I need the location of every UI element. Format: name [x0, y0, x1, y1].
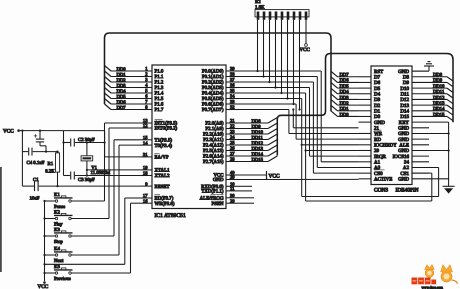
svg-text:DD3: DD3	[117, 83, 127, 89]
svg-text:D2: D2	[374, 103, 381, 109]
svg-text:16: 16	[143, 198, 148, 203]
svg-text:DD5: DD5	[340, 83, 350, 89]
svg-text:K1: K1	[54, 192, 60, 198]
svg-text:DD3: DD3	[340, 95, 350, 101]
svg-text:P2.2(A10): P2.2(A10)	[203, 132, 224, 138]
svg-text:D3: D3	[374, 97, 381, 103]
svg-text:GND: GND	[398, 126, 409, 132]
svg-text:D15: D15	[400, 114, 409, 120]
svg-text:P0.2(AD2): P0.2(AD2)	[202, 80, 224, 86]
svg-text:IDE40PIN: IDE40PIN	[396, 188, 419, 194]
svg-text:DD2: DD2	[117, 77, 127, 83]
svg-text:INT0(P3.2): INT0(P3.2)	[155, 126, 178, 132]
svg-text:26: 26	[230, 146, 235, 151]
svg-text:WR(P3.6): WR(P3.6)	[155, 201, 175, 207]
svg-text:T1(P3.5): T1(P3.5)	[155, 138, 173, 144]
svg-text:20: 20	[230, 175, 235, 180]
svg-text:VCC: VCC	[300, 47, 311, 53]
svg-text:22: 22	[230, 124, 235, 129]
svg-text:P0.4(AD4): P0.4(AD4)	[202, 91, 224, 97]
svg-text:T0(P3.4): T0(P3.4)	[155, 143, 173, 149]
svg-text:K4: K4	[54, 246, 60, 252]
svg-text:PSEN: PSEN	[212, 201, 224, 207]
svg-text:1.8K: 1.8K	[255, 5, 265, 11]
svg-text:15: 15	[143, 135, 148, 140]
svg-text:TXD(P1.1): TXD(P1.1)	[201, 189, 224, 195]
svg-text:24: 24	[230, 135, 235, 140]
svg-text:DD5: DD5	[117, 94, 127, 100]
svg-text:DD11: DD11	[252, 135, 264, 141]
svg-text:11: 11	[230, 186, 235, 191]
svg-text:33: 33	[230, 99, 235, 104]
svg-text:CS0: CS0	[374, 171, 383, 177]
svg-text:P0.1(AD1): P0.1(AD1)	[202, 74, 224, 80]
svg-text:DD14: DD14	[433, 106, 445, 112]
svg-text:21: 21	[230, 118, 235, 123]
svg-text:P2.5(A13): P2.5(A13)	[203, 148, 224, 154]
svg-text:R1: R1	[48, 161, 54, 167]
svg-text:19: 19	[143, 165, 148, 170]
svg-text:K5: K5	[54, 264, 60, 270]
svg-text:CS1: CS1	[400, 171, 409, 177]
svg-text:RST: RST	[374, 69, 383, 75]
svg-text:GND: GND	[213, 177, 224, 183]
svg-text:P0.6(AD6): P0.6(AD6)	[202, 102, 224, 108]
svg-text:DD2: DD2	[340, 100, 350, 106]
svg-text:P2.6(A14): P2.6(A14)	[203, 154, 224, 160]
svg-text:32: 32	[230, 105, 235, 110]
svg-text:GND: GND	[398, 137, 409, 143]
svg-text:P0.3(AD3): P0.3(AD3)	[202, 85, 224, 91]
svg-text:C3 30pF: C3 30pF	[78, 177, 95, 183]
svg-text:P0.5(AD5): P0.5(AD5)	[202, 96, 224, 102]
svg-text:30: 30	[230, 193, 235, 198]
svg-text:R2: R2	[255, 0, 261, 5]
svg-text:DD10: DD10	[252, 129, 264, 135]
svg-text:C4 0.1uF: C4 0.1uF	[27, 160, 45, 166]
svg-text:K2: K2	[54, 210, 60, 216]
svg-text:DD15: DD15	[433, 112, 445, 118]
svg-text:C1: C1	[33, 177, 39, 183]
svg-text:Stop: Stop	[54, 239, 63, 245]
svg-text:DD4: DD4	[117, 88, 127, 94]
svg-text:14: 14	[143, 140, 148, 145]
svg-text:GND: GND	[398, 177, 409, 183]
svg-text:10uF: 10uF	[30, 196, 40, 202]
svg-text:18: 18	[143, 171, 148, 176]
svg-text:DD12: DD12	[252, 140, 264, 146]
svg-text:DD14: DD14	[252, 151, 264, 157]
svg-text:VCC: VCC	[269, 173, 280, 179]
svg-text:DD13: DD13	[433, 100, 445, 106]
svg-text:P0.7(AD7): P0.7(AD7)	[202, 107, 224, 113]
svg-text:IOCHRDY: IOCHRDY	[374, 143, 397, 149]
svg-text:12: 12	[143, 123, 148, 128]
svg-text:P2.3(A11): P2.3(A11)	[203, 137, 224, 143]
svg-text:K3: K3	[54, 227, 60, 233]
svg-text:34: 34	[230, 94, 235, 99]
svg-text:P2.4(A12): P2.4(A12)	[203, 143, 224, 149]
svg-text:EA/VP: EA/VP	[155, 155, 169, 161]
svg-text:DD9: DD9	[433, 78, 443, 84]
svg-text:P1.0: P1.0	[155, 69, 164, 75]
svg-text:P1.1: P1.1	[155, 74, 164, 80]
svg-text:21: 21	[374, 126, 380, 132]
svg-text:RESET: RESET	[155, 184, 170, 190]
svg-text:D1: D1	[374, 108, 381, 114]
svg-text:GND: GND	[398, 148, 409, 154]
svg-text:DD6: DD6	[340, 78, 350, 84]
svg-text:WR: WR	[374, 131, 383, 137]
svg-text:Previous: Previous	[54, 276, 71, 282]
svg-text:P1.5: P1.5	[155, 96, 164, 102]
svg-text:29: 29	[374, 148, 380, 154]
svg-text:P1.2: P1.2	[155, 80, 164, 86]
svg-text:29: 29	[230, 198, 235, 203]
svg-text:P1.3: P1.3	[155, 85, 164, 91]
svg-text:DD4: DD4	[340, 89, 350, 95]
svg-text:D8: D8	[403, 74, 410, 80]
svg-text:Pause: Pause	[54, 204, 65, 210]
svg-text:DD1: DD1	[340, 106, 350, 112]
svg-text:37: 37	[230, 77, 235, 82]
svg-text:36: 36	[230, 83, 235, 88]
svg-text:A0: A0	[374, 165, 381, 171]
svg-text:35: 35	[230, 88, 235, 93]
svg-text:8.2K: 8.2K	[45, 168, 55, 174]
svg-text:D0: D0	[374, 114, 381, 120]
svg-text:ALE: ALE	[399, 143, 409, 149]
svg-text:DD1: DD1	[117, 72, 127, 78]
svg-text:Next: Next	[54, 258, 64, 264]
svg-text:DD0: DD0	[117, 66, 127, 72]
svg-text:DD10: DD10	[433, 83, 445, 89]
svg-text:IC1 AT89C51: IC1 AT89C51	[155, 213, 186, 219]
svg-text:D9: D9	[403, 80, 410, 86]
svg-text:D12: D12	[400, 97, 409, 103]
svg-text:38: 38	[230, 72, 235, 77]
svg-text:DD6: DD6	[117, 99, 127, 105]
svg-text:P1.7: P1.7	[155, 107, 164, 113]
svg-text:D4: D4	[374, 91, 381, 97]
svg-text:25: 25	[230, 140, 235, 145]
svg-text:P1.6: P1.6	[155, 102, 164, 108]
svg-text:A2: A2	[403, 165, 410, 171]
svg-text:Play: Play	[54, 221, 63, 227]
svg-text:ACTIVE: ACTIVE	[374, 177, 392, 183]
svg-text:DD8: DD8	[252, 118, 262, 124]
svg-text:D14: D14	[400, 108, 409, 114]
svg-text:DD12: DD12	[433, 95, 445, 101]
svg-text:DD0: DD0	[340, 112, 350, 118]
svg-text:IRQR: IRQR	[374, 154, 387, 160]
svg-text:CON3: CON3	[374, 188, 388, 194]
svg-text:23: 23	[230, 129, 235, 134]
svg-text:28: 28	[230, 157, 235, 162]
svg-text:34: 34	[404, 160, 410, 166]
svg-text:XTAL1: XTAL1	[155, 168, 171, 174]
svg-text:D5: D5	[374, 86, 381, 92]
svg-text:DD7: DD7	[340, 72, 350, 78]
svg-text:GND: GND	[398, 131, 409, 137]
svg-text:P1.4: P1.4	[155, 91, 164, 97]
svg-text:A1: A1	[374, 160, 381, 166]
svg-text:D13: D13	[400, 103, 409, 109]
svg-text:DD7: DD7	[117, 105, 127, 111]
svg-text:P2.7(A15): P2.7(A15)	[203, 159, 224, 165]
svg-text:DD8: DD8	[433, 72, 443, 78]
svg-text:D11: D11	[401, 91, 410, 97]
svg-text:C2 30pF: C2 30pF	[78, 137, 95, 143]
svg-text:IOCS16: IOCS16	[393, 154, 410, 160]
svg-text:VCC: VCC	[38, 284, 49, 289]
svg-text:RD: RD	[374, 137, 381, 143]
svg-text:VCC: VCC	[3, 128, 14, 134]
svg-text:D7: D7	[374, 74, 381, 80]
svg-text:39: 39	[230, 66, 235, 71]
svg-text:P2.0(A8): P2.0(A8)	[205, 121, 223, 127]
svg-text:DD11: DD11	[433, 89, 445, 95]
svg-text:DD9: DD9	[252, 124, 262, 130]
svg-text:P0.0(AD0): P0.0(AD0)	[202, 69, 224, 75]
svg-text:D6: D6	[374, 80, 381, 86]
svg-text:GND: GND	[374, 120, 385, 126]
svg-text:P2.1(A9): P2.1(A9)	[205, 126, 223, 132]
svg-text:ALE/PROG: ALE/PROG	[200, 196, 224, 202]
svg-text:D10: D10	[400, 86, 409, 92]
svg-text:KEY: KEY	[399, 120, 410, 126]
svg-text:27: 27	[230, 151, 235, 156]
svg-text:31: 31	[143, 152, 148, 157]
svg-text:www.dzsc.com: www.dzsc.com	[422, 285, 444, 289]
svg-text:XTAL2: XTAL2	[155, 173, 171, 179]
svg-text:DD15: DD15	[252, 157, 264, 163]
svg-text:DD13: DD13	[252, 146, 264, 152]
svg-text:GND: GND	[398, 69, 409, 75]
svg-text:RD(P3.7): RD(P3.7)	[155, 196, 174, 202]
